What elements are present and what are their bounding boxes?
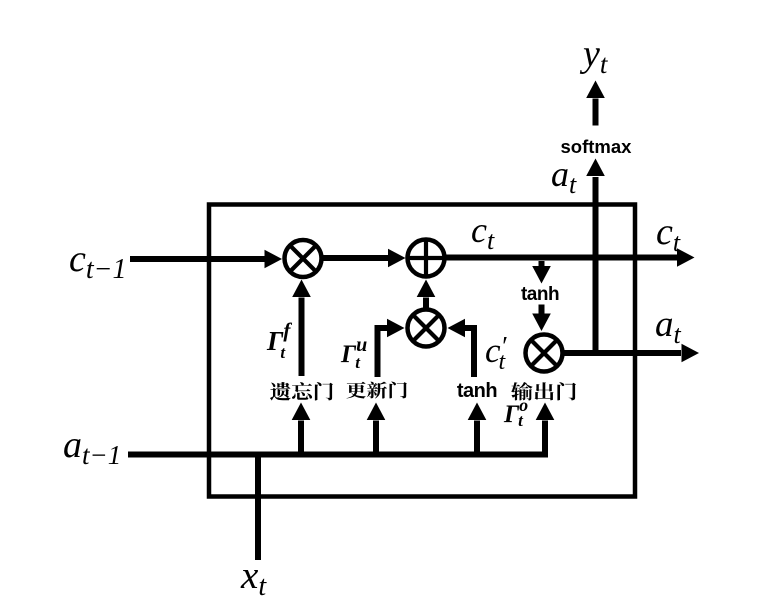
wire center multiply to add node xyxy=(417,280,436,308)
label output gate chinese xyxy=(511,382,576,401)
multiply node update path xyxy=(408,310,445,347)
wire a_t-1 input with output-gate branch xyxy=(128,403,554,455)
svg-text:softmax: softmax xyxy=(561,136,633,157)
wire a_t output xyxy=(563,344,700,363)
wire branch down to tanh xyxy=(532,261,551,284)
label forget gate chinese xyxy=(270,382,333,401)
svg-text:tanh: tanh xyxy=(457,380,497,402)
LSTM cell box xyxy=(209,205,635,497)
wire softmax to y_t xyxy=(586,81,605,126)
wire branch up to tanh gate xyxy=(468,403,487,452)
multiply node forget gate xyxy=(285,240,322,277)
wire tanh elbow to center multiply xyxy=(448,319,475,377)
add node xyxy=(408,240,445,277)
wire riser to softmax xyxy=(586,159,605,354)
svg-text:tanh: tanh xyxy=(521,284,559,305)
svg-text:c′t: c′t xyxy=(485,331,508,375)
wire forget gate to multiply node xyxy=(292,280,311,377)
wire x_t input xyxy=(255,455,261,561)
wire branch up to forget gate xyxy=(292,403,311,452)
multiply node output gate xyxy=(526,335,563,372)
wire branch up to update gate xyxy=(367,403,386,452)
wire forget-multiply to add node xyxy=(322,249,406,268)
wire c_t-1 input xyxy=(130,250,282,269)
wire update gate elbow to center multiply xyxy=(378,319,405,377)
label update gate chinese xyxy=(347,382,408,399)
wire c_t output xyxy=(445,248,695,267)
wire tanh to output-multiply xyxy=(532,305,551,332)
